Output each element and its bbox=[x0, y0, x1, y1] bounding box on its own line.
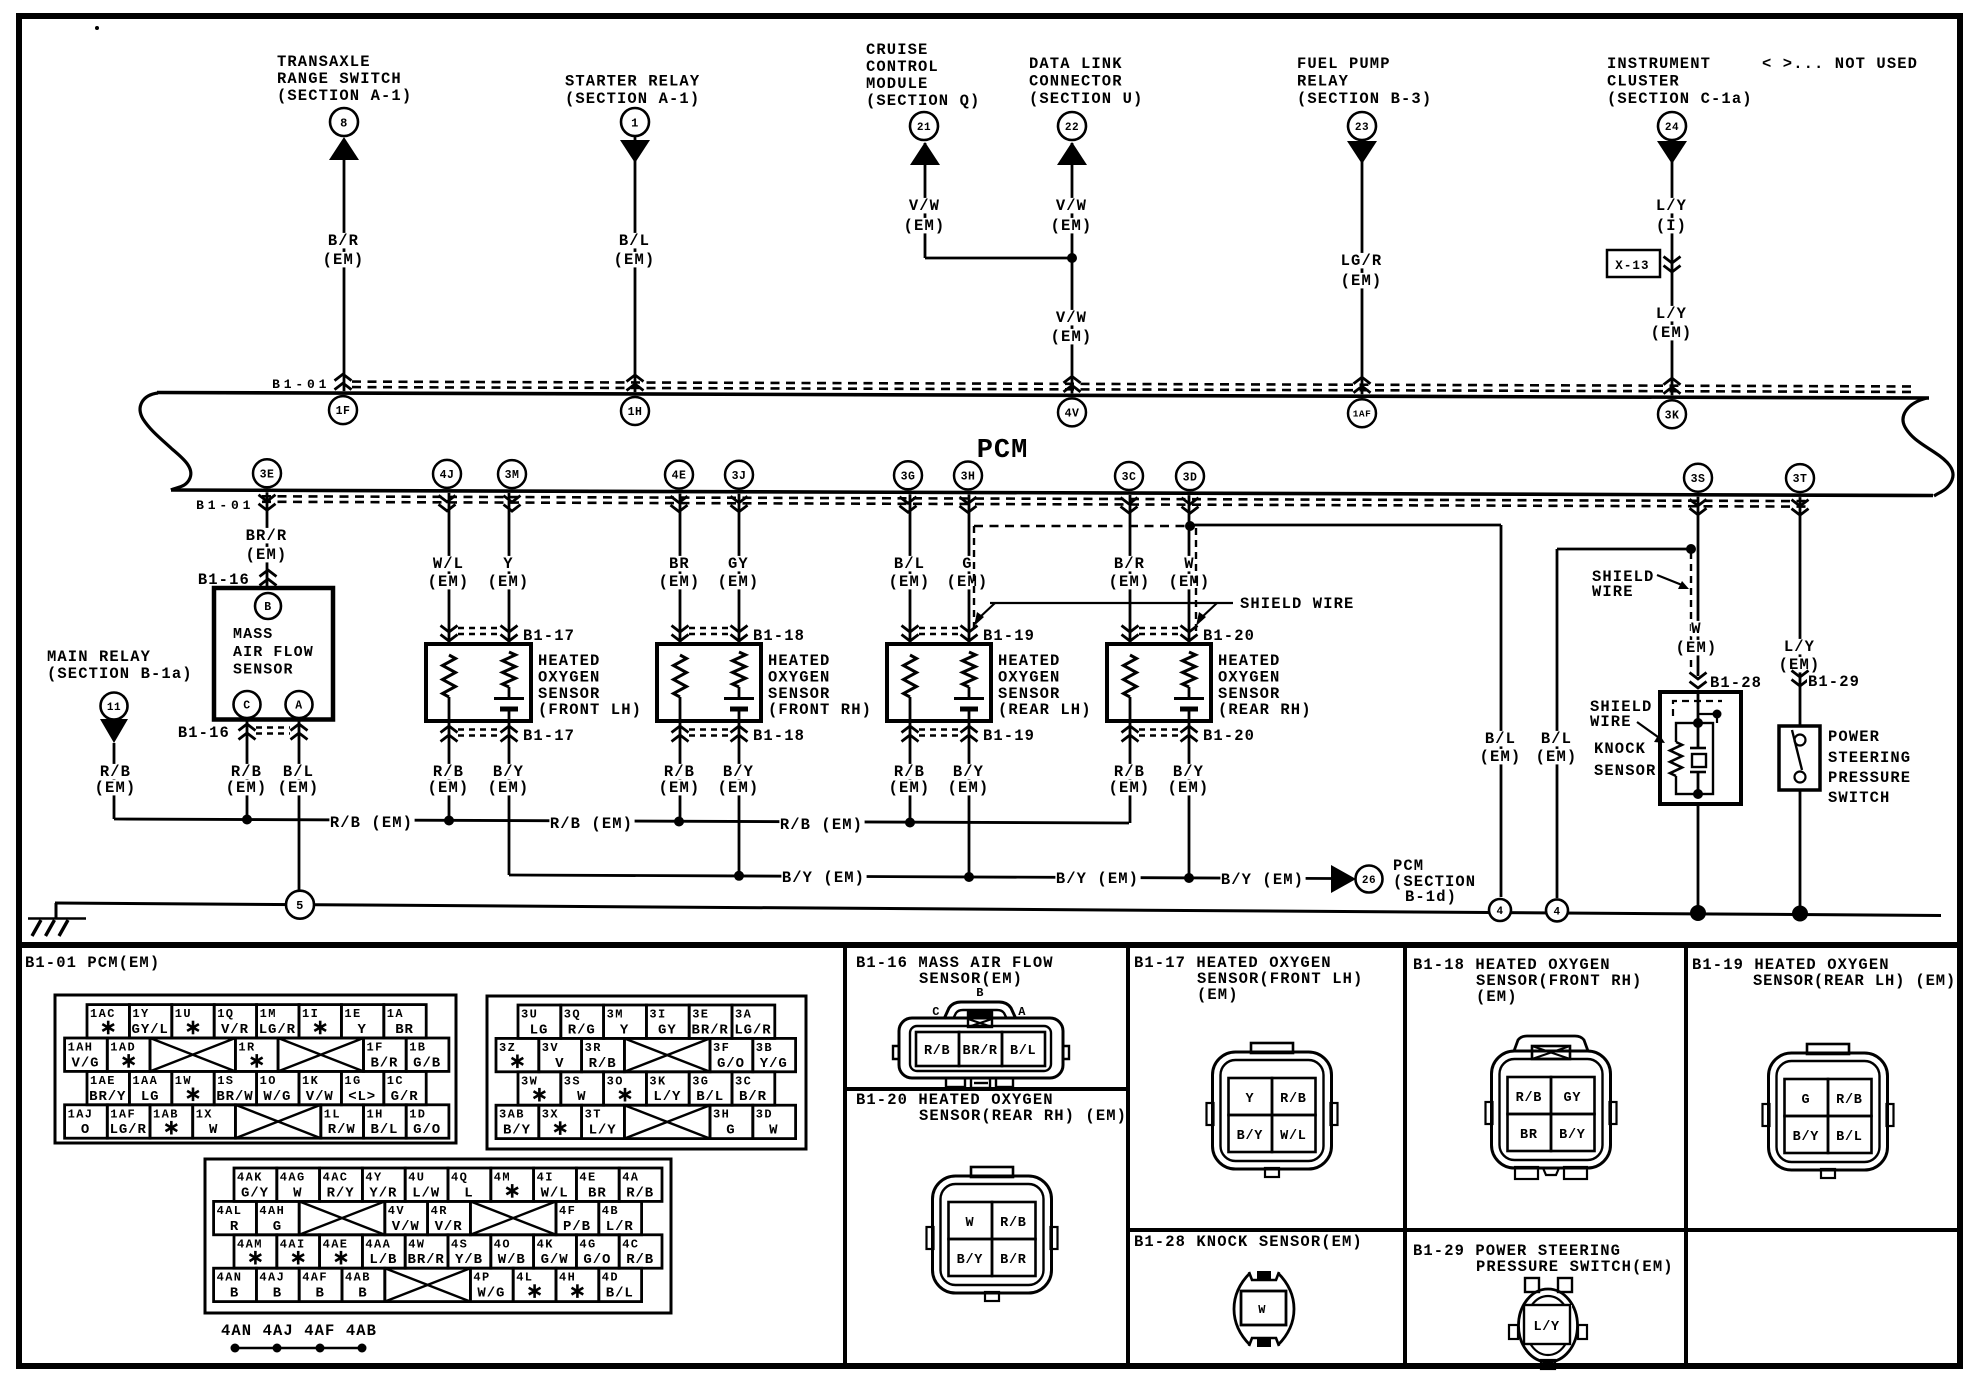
svg-text:MASS: MASS bbox=[233, 626, 273, 643]
svg-text:B1-28: B1-28 bbox=[1710, 674, 1762, 692]
svg-text:L/Y: L/Y bbox=[1533, 1320, 1560, 1335]
svg-text:SENSOR(EM): SENSOR(EM) bbox=[919, 970, 1023, 988]
svg-text:(SECTION A-1): (SECTION A-1) bbox=[277, 87, 412, 105]
svg-text:3B: 3B bbox=[756, 1041, 773, 1055]
svg-text:SENSOR: SENSOR bbox=[768, 685, 830, 703]
svg-text:L/R: L/R bbox=[606, 1219, 634, 1235]
svg-text:4E: 4E bbox=[579, 1171, 596, 1185]
svg-text:1AH: 1AH bbox=[68, 1041, 94, 1055]
svg-text:Y: Y bbox=[357, 1022, 366, 1038]
svg-text:4J: 4J bbox=[440, 469, 455, 482]
svg-text:R/B: R/B bbox=[1516, 1091, 1542, 1106]
svg-text:G: G bbox=[962, 555, 972, 573]
svg-text:BR/R: BR/R bbox=[963, 1044, 998, 1059]
svg-text:(EM): (EM) bbox=[718, 573, 760, 591]
svg-text:1Y: 1Y bbox=[132, 1007, 149, 1021]
svg-text:STARTER RELAY: STARTER RELAY bbox=[565, 73, 700, 91]
svg-text:4: 4 bbox=[1553, 906, 1560, 918]
svg-text:11: 11 bbox=[107, 702, 121, 714]
svg-text:MODULE: MODULE bbox=[866, 75, 928, 93]
svg-text:B1-20: B1-20 bbox=[1203, 727, 1255, 745]
svg-text:B/L: B/L bbox=[1541, 730, 1572, 748]
svg-text:B-1d): B-1d) bbox=[1405, 888, 1457, 906]
svg-text:R/B (EM): R/B (EM) bbox=[780, 816, 863, 834]
svg-text:4O: 4O bbox=[494, 1237, 511, 1251]
svg-text:BR: BR bbox=[395, 1022, 414, 1038]
svg-text:(EM): (EM) bbox=[1197, 986, 1239, 1004]
svg-text:4B: 4B bbox=[602, 1204, 619, 1218]
svg-text:SENSOR(REAR LH) (EM): SENSOR(REAR LH) (EM) bbox=[1753, 972, 1956, 990]
svg-text:(EM): (EM) bbox=[428, 779, 470, 797]
svg-text:GY: GY bbox=[1564, 1091, 1582, 1106]
svg-text:G: G bbox=[1801, 1093, 1810, 1108]
svg-text:HEATED: HEATED bbox=[1218, 652, 1280, 670]
svg-text:P/B: P/B bbox=[563, 1219, 591, 1235]
svg-text:(EM): (EM) bbox=[1676, 639, 1718, 657]
svg-text:4AJ: 4AJ bbox=[259, 1271, 285, 1285]
svg-text:1I: 1I bbox=[302, 1007, 319, 1021]
svg-text:1AJ: 1AJ bbox=[68, 1107, 94, 1121]
svg-text:(SECTION C-1a): (SECTION C-1a) bbox=[1607, 90, 1753, 108]
svg-text:3Z: 3Z bbox=[499, 1041, 516, 1055]
svg-text:3G: 3G bbox=[692, 1074, 709, 1088]
svg-text:V/W: V/W bbox=[909, 197, 940, 215]
svg-text:(EM): (EM) bbox=[1779, 656, 1821, 674]
svg-text:W: W bbox=[1691, 620, 1701, 638]
svg-text:B/Y (EM): B/Y (EM) bbox=[1056, 870, 1139, 888]
svg-text:GY/L: GY/L bbox=[132, 1022, 169, 1038]
svg-text:(EM): (EM) bbox=[246, 546, 288, 564]
svg-text:W/L: W/L bbox=[433, 555, 464, 573]
svg-text:G/B: G/B bbox=[413, 1055, 441, 1071]
svg-text:1F: 1F bbox=[336, 405, 351, 418]
svg-text:O: O bbox=[81, 1122, 90, 1138]
svg-text:4AF: 4AF bbox=[302, 1271, 328, 1285]
svg-text:CRUISE: CRUISE bbox=[866, 41, 928, 59]
svg-text:B1-19: B1-19 bbox=[983, 727, 1035, 745]
svg-text:4L: 4L bbox=[516, 1271, 533, 1285]
svg-text:BR/R: BR/R bbox=[246, 527, 288, 545]
svg-text:R/B: R/B bbox=[1000, 1216, 1026, 1231]
svg-text:(EM): (EM) bbox=[278, 779, 320, 797]
svg-text:4AE: 4AE bbox=[323, 1237, 349, 1251]
svg-text:4AN: 4AN bbox=[217, 1271, 243, 1285]
svg-text:B1-17: B1-17 bbox=[523, 727, 575, 745]
svg-text:BR: BR bbox=[588, 1185, 607, 1201]
svg-text:23: 23 bbox=[1355, 122, 1369, 134]
svg-text:V/W: V/W bbox=[306, 1089, 334, 1105]
svg-text:B/R: B/R bbox=[370, 1055, 398, 1071]
svg-text:Y: Y bbox=[503, 555, 513, 573]
svg-text:B: B bbox=[230, 1286, 239, 1302]
svg-text:R/B (EM): R/B (EM) bbox=[330, 814, 413, 832]
svg-text:(SECTION B-1a): (SECTION B-1a) bbox=[47, 665, 193, 683]
svg-text:B/Y: B/Y bbox=[1237, 1129, 1264, 1144]
svg-text:3C: 3C bbox=[735, 1074, 752, 1088]
svg-text:SENSOR: SENSOR bbox=[998, 685, 1060, 703]
svg-text:3U: 3U bbox=[521, 1008, 538, 1022]
svg-text:4V: 4V bbox=[388, 1204, 405, 1218]
svg-text:3T: 3T bbox=[585, 1108, 602, 1122]
svg-text:R/B: R/B bbox=[924, 1044, 950, 1059]
svg-text:R/B: R/B bbox=[626, 1252, 654, 1268]
svg-text:1L: 1L bbox=[324, 1107, 341, 1121]
svg-text:V/R: V/R bbox=[435, 1219, 463, 1235]
svg-text:B1-28 KNOCK SENSOR(EM): B1-28 KNOCK SENSOR(EM) bbox=[1134, 1233, 1363, 1251]
svg-text:(EM): (EM) bbox=[428, 573, 470, 591]
svg-text:V/W: V/W bbox=[392, 1219, 420, 1235]
svg-text:G/Y: G/Y bbox=[241, 1185, 269, 1201]
svg-text:B/L: B/L bbox=[370, 1122, 398, 1138]
svg-text:1E: 1E bbox=[344, 1007, 361, 1021]
svg-text:B: B bbox=[358, 1286, 367, 1302]
svg-text:B1-01: B1-01 bbox=[272, 377, 330, 392]
svg-text:4AA: 4AA bbox=[365, 1237, 391, 1251]
svg-text:1F: 1F bbox=[367, 1041, 384, 1055]
svg-text:3A: 3A bbox=[735, 1008, 752, 1022]
svg-text:B/L: B/L bbox=[894, 555, 925, 573]
svg-text:B: B bbox=[315, 1286, 324, 1302]
svg-text:W: W bbox=[769, 1123, 778, 1139]
svg-text:FUEL PUMP: FUEL PUMP bbox=[1297, 55, 1391, 73]
svg-text:A: A bbox=[295, 700, 302, 713]
svg-text:BR/W: BR/W bbox=[216, 1089, 253, 1105]
svg-text:4AI: 4AI bbox=[280, 1237, 306, 1251]
svg-text:INSTRUMENT: INSTRUMENT bbox=[1607, 55, 1711, 73]
svg-text:(EM): (EM) bbox=[947, 573, 989, 591]
svg-text:3D: 3D bbox=[756, 1108, 773, 1122]
svg-text:OXYGEN: OXYGEN bbox=[1218, 668, 1280, 686]
svg-text:4S: 4S bbox=[451, 1237, 468, 1251]
svg-text:4Q: 4Q bbox=[451, 1171, 468, 1185]
svg-text:4E: 4E bbox=[672, 470, 687, 483]
svg-text:B: B bbox=[264, 601, 271, 614]
svg-text:4K: 4K bbox=[537, 1237, 554, 1251]
svg-text:(EM): (EM) bbox=[1341, 272, 1383, 290]
svg-text:W: W bbox=[293, 1185, 302, 1201]
svg-text:3X: 3X bbox=[542, 1108, 559, 1122]
svg-text:Y/G: Y/G bbox=[760, 1056, 788, 1072]
svg-text:(EM): (EM) bbox=[948, 779, 990, 797]
svg-text:4: 4 bbox=[1496, 906, 1503, 918]
svg-text:B1-01: B1-01 bbox=[196, 498, 254, 513]
svg-text:(SECTION Q): (SECTION Q) bbox=[866, 92, 980, 110]
svg-text:X-13: X-13 bbox=[1615, 259, 1649, 273]
svg-text:L/Y: L/Y bbox=[589, 1123, 617, 1139]
svg-text:G/O: G/O bbox=[717, 1056, 745, 1072]
svg-text:3V: 3V bbox=[542, 1041, 559, 1055]
svg-text:PCM: PCM bbox=[977, 436, 1029, 466]
svg-text:4W: 4W bbox=[408, 1237, 425, 1251]
svg-text:3AB: 3AB bbox=[499, 1108, 525, 1122]
svg-text:3K: 3K bbox=[649, 1074, 666, 1088]
svg-text:SWITCH: SWITCH bbox=[1828, 789, 1890, 807]
svg-text:OXYGEN: OXYGEN bbox=[538, 668, 600, 686]
svg-text:(EM): (EM) bbox=[226, 779, 268, 797]
svg-text:G: G bbox=[273, 1219, 282, 1235]
svg-text:(SECTION A-1): (SECTION A-1) bbox=[565, 90, 700, 108]
svg-text:1A: 1A bbox=[387, 1007, 404, 1021]
svg-text:(EM): (EM) bbox=[1651, 324, 1693, 342]
svg-text:B/L: B/L bbox=[619, 232, 650, 250]
svg-text:SENSOR: SENSOR bbox=[538, 685, 600, 703]
svg-text:Y/B: Y/B bbox=[455, 1252, 483, 1268]
svg-text:W/L: W/L bbox=[1280, 1129, 1306, 1144]
svg-text:L: L bbox=[464, 1185, 473, 1201]
svg-text:4D: 4D bbox=[602, 1271, 619, 1285]
svg-text:B/Y: B/Y bbox=[957, 1253, 984, 1268]
svg-text:SENSOR(REAR RH) (EM): SENSOR(REAR RH) (EM) bbox=[919, 1107, 1127, 1125]
svg-text:HEATED: HEATED bbox=[768, 652, 830, 670]
svg-text:R/B: R/B bbox=[626, 1185, 654, 1201]
svg-text:GY: GY bbox=[728, 555, 749, 573]
svg-text:(EM): (EM) bbox=[889, 573, 931, 591]
svg-text:1C: 1C bbox=[387, 1074, 404, 1088]
svg-text:1S: 1S bbox=[217, 1074, 234, 1088]
svg-text:L/Y: L/Y bbox=[653, 1089, 681, 1105]
svg-text:B/L: B/L bbox=[1485, 730, 1516, 748]
svg-text:PRESSURE SWITCH(EM): PRESSURE SWITCH(EM) bbox=[1476, 1258, 1674, 1276]
svg-text:R/B: R/B bbox=[589, 1056, 617, 1072]
svg-text:WIRE: WIRE bbox=[1592, 583, 1634, 601]
svg-text:V/G: V/G bbox=[72, 1055, 100, 1071]
svg-text:26: 26 bbox=[1362, 875, 1376, 887]
svg-text:4I: 4I bbox=[537, 1171, 554, 1185]
svg-text:< >... NOT USED: < >... NOT USED bbox=[1762, 55, 1918, 73]
svg-text:3R: 3R bbox=[585, 1041, 602, 1055]
svg-text:G/W: G/W bbox=[541, 1252, 569, 1268]
svg-text:POWER: POWER bbox=[1828, 728, 1880, 746]
svg-text:1U: 1U bbox=[175, 1007, 192, 1021]
svg-text:(EM): (EM) bbox=[1051, 217, 1093, 235]
svg-text:BR/R: BR/R bbox=[408, 1252, 445, 1268]
svg-text:(EM): (EM) bbox=[1169, 573, 1211, 591]
svg-text:W: W bbox=[577, 1089, 586, 1105]
svg-text:G/O: G/O bbox=[413, 1122, 441, 1138]
svg-text:MAIN RELAY: MAIN RELAY bbox=[47, 648, 151, 666]
svg-text:(SECTION B-3): (SECTION B-3) bbox=[1297, 90, 1432, 108]
svg-text:(FRONT LH): (FRONT LH) bbox=[538, 701, 642, 719]
svg-text:CLUSTER: CLUSTER bbox=[1607, 73, 1680, 91]
svg-text:3S: 3S bbox=[564, 1074, 581, 1088]
svg-text:3M: 3M bbox=[607, 1008, 624, 1022]
svg-text:G: G bbox=[726, 1123, 735, 1139]
svg-text:(I): (I) bbox=[1656, 217, 1687, 235]
svg-text:4G: 4G bbox=[579, 1237, 596, 1251]
svg-text:(EM): (EM) bbox=[614, 251, 656, 269]
svg-text:R/B: R/B bbox=[1836, 1093, 1862, 1108]
svg-text:OXYGEN: OXYGEN bbox=[768, 668, 830, 686]
svg-text:4AN 4AJ 4AF 4AB: 4AN 4AJ 4AF 4AB bbox=[221, 1322, 377, 1340]
svg-text:4AG: 4AG bbox=[280, 1171, 306, 1185]
svg-text:R/W: R/W bbox=[328, 1122, 356, 1138]
svg-text:3O: 3O bbox=[607, 1074, 624, 1088]
svg-text:1W: 1W bbox=[175, 1074, 192, 1088]
svg-text:OXYGEN: OXYGEN bbox=[998, 668, 1060, 686]
svg-text:4C: 4C bbox=[622, 1237, 639, 1251]
svg-text:(EM): (EM) bbox=[889, 779, 931, 797]
svg-text:HEATED: HEATED bbox=[538, 652, 600, 670]
svg-text:1O: 1O bbox=[260, 1074, 277, 1088]
svg-text:SENSOR: SENSOR bbox=[1218, 685, 1280, 703]
svg-text:4U: 4U bbox=[408, 1171, 425, 1185]
svg-text:1AD: 1AD bbox=[110, 1041, 136, 1055]
svg-text:4H: 4H bbox=[559, 1271, 576, 1285]
svg-text:(REAR RH): (REAR RH) bbox=[1218, 701, 1312, 719]
svg-text:BR: BR bbox=[669, 555, 690, 573]
svg-text:STEERING: STEERING bbox=[1828, 749, 1911, 767]
svg-text:SENSOR: SENSOR bbox=[233, 662, 294, 679]
svg-text:1AC: 1AC bbox=[90, 1007, 116, 1021]
svg-text:1X: 1X bbox=[196, 1107, 213, 1121]
svg-text:3G: 3G bbox=[901, 470, 916, 483]
svg-text:Y/R: Y/R bbox=[369, 1185, 397, 1201]
svg-text:(EM): (EM) bbox=[659, 779, 701, 797]
svg-text:3I: 3I bbox=[649, 1008, 666, 1022]
svg-text:1M: 1M bbox=[260, 1007, 277, 1021]
svg-text:1D: 1D bbox=[409, 1107, 426, 1121]
svg-text:1R: 1R bbox=[238, 1041, 255, 1055]
svg-text:B/L: B/L bbox=[606, 1286, 634, 1302]
svg-text:(EM): (EM) bbox=[488, 779, 530, 797]
svg-text:RANGE SWITCH: RANGE SWITCH bbox=[277, 70, 402, 88]
svg-text:LG/R: LG/R bbox=[259, 1022, 296, 1038]
svg-text:4AM: 4AM bbox=[237, 1237, 263, 1251]
svg-text:22: 22 bbox=[1065, 122, 1079, 134]
svg-text:8: 8 bbox=[340, 116, 348, 130]
svg-text:W/G: W/G bbox=[263, 1089, 291, 1105]
svg-text:R/G: R/G bbox=[568, 1022, 596, 1038]
svg-text:1Q: 1Q bbox=[217, 1007, 234, 1021]
svg-text:21: 21 bbox=[917, 122, 931, 134]
svg-text:W/B: W/B bbox=[498, 1252, 526, 1268]
svg-text:24: 24 bbox=[1665, 122, 1679, 134]
svg-text:V: V bbox=[555, 1056, 564, 1072]
svg-text:B/Y: B/Y bbox=[1559, 1128, 1586, 1143]
svg-text:R/Y: R/Y bbox=[327, 1185, 355, 1201]
svg-text:W: W bbox=[209, 1122, 218, 1138]
svg-text:W/G: W/G bbox=[477, 1286, 505, 1302]
svg-text:GY: GY bbox=[658, 1022, 677, 1038]
svg-text:(EM): (EM) bbox=[1476, 988, 1518, 1006]
svg-text:(EM): (EM) bbox=[95, 779, 137, 797]
svg-text:<L>: <L> bbox=[348, 1089, 376, 1105]
svg-text:B1-16: B1-16 bbox=[178, 724, 230, 742]
svg-text:SHIELD WIRE: SHIELD WIRE bbox=[1240, 595, 1354, 613]
svg-text:W: W bbox=[1184, 555, 1194, 573]
svg-text:L/B: L/B bbox=[369, 1252, 397, 1268]
svg-text:V/W: V/W bbox=[1056, 309, 1087, 327]
svg-text:4Y: 4Y bbox=[365, 1171, 382, 1185]
svg-text:4V: 4V bbox=[1065, 407, 1080, 420]
svg-text:1AF: 1AF bbox=[1353, 409, 1372, 420]
svg-text:WIRE: WIRE bbox=[1590, 713, 1632, 731]
svg-text:V/W: V/W bbox=[1056, 197, 1087, 215]
svg-text:(EM): (EM) bbox=[718, 779, 760, 797]
svg-text:1: 1 bbox=[631, 116, 639, 130]
svg-text:W/L: W/L bbox=[541, 1185, 569, 1201]
svg-text:3H: 3H bbox=[961, 471, 976, 484]
svg-text:(REAR LH): (REAR LH) bbox=[998, 701, 1092, 719]
svg-text:1K: 1K bbox=[302, 1074, 319, 1088]
svg-text:1AB: 1AB bbox=[153, 1107, 179, 1121]
svg-text:LG/R: LG/R bbox=[1341, 252, 1383, 270]
svg-text:W: W bbox=[1258, 1303, 1266, 1317]
svg-text:3S: 3S bbox=[1691, 473, 1706, 486]
svg-text:(EM): (EM) bbox=[488, 573, 530, 591]
svg-text:B/R: B/R bbox=[739, 1089, 767, 1105]
svg-text:3E: 3E bbox=[692, 1008, 709, 1022]
svg-text:B/Y (EM): B/Y (EM) bbox=[1221, 871, 1304, 889]
svg-text:V/R: V/R bbox=[221, 1022, 249, 1038]
svg-text:C: C bbox=[243, 700, 250, 713]
svg-text:3F: 3F bbox=[713, 1041, 730, 1055]
svg-text:1B: 1B bbox=[409, 1041, 426, 1055]
svg-text:Y: Y bbox=[1245, 1092, 1254, 1107]
svg-text:4P: 4P bbox=[473, 1271, 490, 1285]
svg-text:B: B bbox=[976, 986, 984, 1000]
svg-text:1AA: 1AA bbox=[132, 1074, 158, 1088]
svg-text:CONNECTOR: CONNECTOR bbox=[1029, 73, 1123, 91]
svg-text:B/R: B/R bbox=[328, 232, 359, 250]
svg-text:(EM): (EM) bbox=[1480, 748, 1522, 766]
svg-text:3J: 3J bbox=[732, 470, 747, 483]
svg-text:CONTROL: CONTROL bbox=[866, 58, 939, 76]
svg-text:4A: 4A bbox=[622, 1171, 639, 1185]
svg-text:(FRONT RH): (FRONT RH) bbox=[768, 701, 872, 719]
svg-text:(EM): (EM) bbox=[904, 217, 946, 235]
svg-text:LG: LG bbox=[141, 1089, 160, 1105]
svg-text:BR/R: BR/R bbox=[692, 1022, 729, 1038]
svg-text:KNOCK: KNOCK bbox=[1594, 740, 1646, 758]
svg-text:DATA LINK: DATA LINK bbox=[1029, 55, 1123, 73]
svg-text:3W: 3W bbox=[521, 1074, 538, 1088]
svg-text:BR: BR bbox=[1520, 1128, 1538, 1143]
svg-text:Y: Y bbox=[620, 1022, 629, 1038]
svg-text:R/B (EM): R/B (EM) bbox=[550, 815, 633, 833]
svg-text:B/Y: B/Y bbox=[503, 1123, 531, 1139]
svg-text:RELAY: RELAY bbox=[1297, 73, 1349, 91]
svg-text:3M: 3M bbox=[505, 469, 520, 482]
svg-text:3C: 3C bbox=[1122, 471, 1137, 484]
svg-text:LG: LG bbox=[530, 1022, 549, 1038]
svg-text:3E: 3E bbox=[260, 468, 275, 481]
svg-text:3Q: 3Q bbox=[564, 1008, 581, 1022]
svg-text:L/Y: L/Y bbox=[1784, 638, 1815, 656]
svg-text:B/L: B/L bbox=[1010, 1044, 1036, 1059]
svg-text:3D: 3D bbox=[1183, 471, 1198, 484]
svg-text:4R: 4R bbox=[431, 1204, 448, 1218]
svg-text:4AC: 4AC bbox=[323, 1171, 349, 1185]
svg-text:SENSOR: SENSOR bbox=[1594, 762, 1656, 780]
svg-text:B1-18: B1-18 bbox=[753, 727, 805, 745]
svg-text:(EM): (EM) bbox=[1109, 779, 1151, 797]
svg-text:1AE: 1AE bbox=[90, 1074, 116, 1088]
svg-text:1H: 1H bbox=[628, 406, 643, 419]
svg-text:HEATED: HEATED bbox=[998, 652, 1060, 670]
svg-text:LG/R: LG/R bbox=[734, 1022, 771, 1038]
svg-text:3H: 3H bbox=[713, 1108, 730, 1122]
svg-text:4AK: 4AK bbox=[237, 1171, 263, 1185]
svg-text:4AL: 4AL bbox=[217, 1204, 243, 1218]
svg-text:B/L: B/L bbox=[696, 1089, 724, 1105]
svg-text:B/L: B/L bbox=[1836, 1130, 1862, 1145]
svg-text:(EM): (EM) bbox=[1536, 748, 1578, 766]
svg-text:1G: 1G bbox=[344, 1074, 361, 1088]
svg-text:B/R: B/R bbox=[1000, 1253, 1027, 1268]
svg-text:4M: 4M bbox=[494, 1171, 511, 1185]
svg-text:4F: 4F bbox=[559, 1204, 576, 1218]
